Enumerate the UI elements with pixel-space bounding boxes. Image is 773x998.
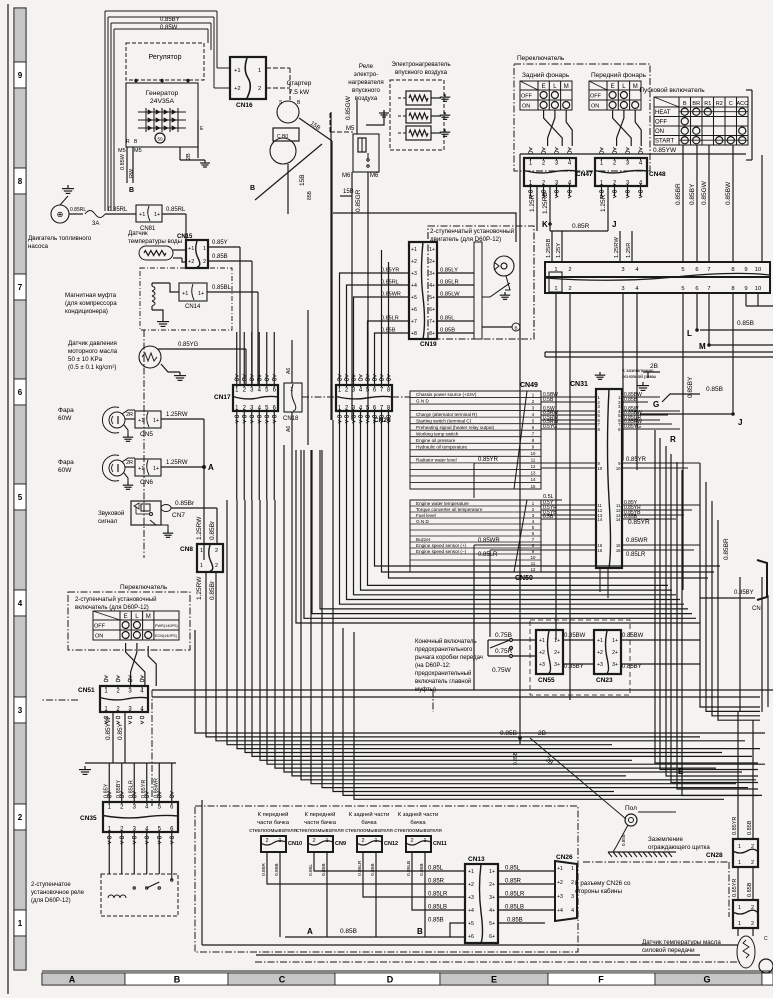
svg-text:+6: +6 bbox=[468, 934, 474, 940]
svg-text:+1: +1 bbox=[597, 638, 603, 644]
svg-text:0.5L: 0.5L bbox=[543, 494, 554, 500]
svg-text:Starting switch (terminal C): Starting switch (terminal C) bbox=[416, 418, 472, 423]
svg-text:C: C bbox=[729, 101, 733, 107]
svg-text:+3: +3 bbox=[539, 662, 545, 668]
svg-text:0.75B: 0.75B bbox=[495, 632, 512, 639]
svg-text:3+: 3+ bbox=[612, 662, 618, 668]
svg-text:CN16: CN16 bbox=[236, 102, 253, 109]
svg-text:2-ступенчатый установочный: 2-ступенчатый установочный bbox=[430, 228, 515, 235]
svg-text:CN: CN bbox=[752, 606, 761, 612]
svg-text:A: A bbox=[208, 463, 214, 472]
svg-text:сигнал: сигнал bbox=[98, 518, 118, 525]
svg-text:CN26: CN26 bbox=[556, 854, 573, 861]
svg-text:1+: 1+ bbox=[153, 466, 159, 472]
svg-text:0.85Br: 0.85Br bbox=[209, 580, 216, 600]
svg-text:Fuel level: Fuel level bbox=[416, 513, 436, 518]
svg-text:0.85BW: 0.85BW bbox=[725, 181, 732, 205]
svg-text:Working temp switch: Working temp switch bbox=[416, 431, 459, 436]
svg-text:0.85B: 0.85B bbox=[507, 918, 523, 924]
svg-text:Электронагреватель: Электронагреватель bbox=[391, 61, 450, 68]
svg-text:G N D: G N D bbox=[416, 399, 429, 404]
svg-text:1: 1 bbox=[738, 905, 741, 911]
svg-text:+1: +1 bbox=[138, 418, 144, 424]
svg-text:включатель главной: включатель главной bbox=[415, 678, 471, 685]
svg-text:(для D60P-12): (для D60P-12) bbox=[31, 898, 71, 904]
svg-text:0.85YW: 0.85YW bbox=[653, 147, 677, 154]
svg-text:0.85LR: 0.85LR bbox=[505, 892, 525, 898]
svg-text:Датчик: Датчик bbox=[128, 230, 148, 237]
svg-text:стеклоомывателя: стеклоомывателя bbox=[345, 828, 393, 834]
svg-text:(для компрессора: (для компрессора bbox=[65, 300, 117, 307]
svg-text:2+: 2+ bbox=[429, 259, 435, 265]
svg-text:CN6: CN6 bbox=[140, 479, 153, 486]
svg-text:CN51: CN51 bbox=[78, 687, 95, 694]
svg-text:M6: M6 bbox=[342, 173, 351, 179]
svg-text:0.85Y: 0.85Y bbox=[117, 722, 124, 740]
svg-text:CN10: CN10 bbox=[288, 841, 302, 847]
svg-text:1.25RW: 1.25RW bbox=[166, 460, 188, 466]
svg-text:M: M bbox=[699, 342, 706, 351]
svg-text:8: 8 bbox=[731, 286, 734, 292]
svg-text:E: E bbox=[542, 84, 546, 90]
svg-text:0.85RL: 0.85RL bbox=[70, 207, 86, 213]
svg-text:OFF: OFF bbox=[590, 94, 602, 100]
svg-text:1: 1 bbox=[203, 246, 206, 252]
svg-text:CN19: CN19 bbox=[420, 341, 437, 348]
svg-text:A: A bbox=[307, 927, 313, 936]
svg-text:CN13: CN13 bbox=[468, 856, 485, 863]
svg-text:60W: 60W bbox=[58, 467, 72, 474]
svg-text:0.85B: 0.85B bbox=[624, 514, 638, 520]
svg-text:части бачка: части бачка bbox=[257, 820, 290, 826]
svg-text:+4: +4 bbox=[557, 908, 563, 914]
svg-text:E: E bbox=[678, 767, 684, 776]
svg-text:0.85WR: 0.85WR bbox=[153, 778, 159, 798]
svg-text:рычага коробки передач: рычага коробки передач bbox=[415, 655, 483, 661]
svg-text:С: С bbox=[764, 936, 768, 942]
svg-text:0.85BW: 0.85BW bbox=[564, 633, 586, 639]
svg-text:ON: ON bbox=[522, 104, 530, 110]
svg-text:10: 10 bbox=[531, 555, 536, 560]
svg-text:5: 5 bbox=[18, 493, 23, 502]
svg-text:4: 4 bbox=[571, 908, 574, 914]
svg-text:0.85L: 0.85L bbox=[308, 864, 314, 876]
svg-text:1.25R: 1.25R bbox=[600, 194, 607, 212]
svg-text:+3: +3 bbox=[597, 662, 603, 668]
svg-text:моторного масла: моторного масла bbox=[68, 348, 118, 355]
svg-text:2-ступенчатый установочный: 2-ступенчатый установочный bbox=[75, 596, 157, 603]
svg-text:2: 2 bbox=[265, 838, 268, 844]
svg-text:+1: +1 bbox=[182, 291, 188, 297]
svg-text:B: B bbox=[514, 326, 517, 331]
svg-text:K: K bbox=[542, 220, 548, 229]
svg-text:C B0: C B0 bbox=[277, 134, 288, 140]
svg-text:1.25R: 1.25R bbox=[626, 243, 632, 258]
svg-text:+2: +2 bbox=[411, 259, 417, 265]
svg-text:+1: +1 bbox=[468, 869, 474, 875]
svg-text:2B: 2B bbox=[186, 153, 192, 160]
svg-text:0.85R: 0.85R bbox=[572, 223, 590, 230]
svg-text:+2: +2 bbox=[557, 880, 563, 886]
svg-text:M: M bbox=[633, 84, 638, 90]
svg-text:+3: +3 bbox=[557, 894, 563, 900]
svg-text:2B: 2B bbox=[538, 730, 546, 737]
svg-text:10: 10 bbox=[755, 267, 761, 273]
svg-text:0.85RL: 0.85RL bbox=[108, 207, 128, 213]
svg-text:0.85B: 0.85B bbox=[747, 882, 753, 897]
svg-text:1.25RW: 1.25RW bbox=[166, 412, 188, 418]
svg-text:CN23: CN23 bbox=[596, 677, 613, 684]
svg-text:0.85Y: 0.85Y bbox=[103, 783, 109, 798]
svg-text:ON: ON bbox=[655, 129, 664, 135]
svg-text:Переключатель: Переключатель bbox=[517, 55, 565, 62]
svg-text:B: B bbox=[129, 187, 134, 194]
svg-text:1+: 1+ bbox=[612, 638, 618, 644]
svg-text:+3: +3 bbox=[411, 271, 417, 277]
svg-text:Регулятор: Регулятор bbox=[149, 54, 182, 61]
svg-text:0.85Br: 0.85Br bbox=[175, 500, 195, 507]
svg-text:RW: RW bbox=[129, 168, 135, 178]
svg-text:Engine water temperature: Engine water temperature bbox=[416, 501, 469, 506]
svg-text:К разъему CN26 со: К разъему CN26 со bbox=[575, 880, 631, 887]
svg-text:1+: 1+ bbox=[429, 247, 435, 253]
svg-text:1: 1 bbox=[278, 838, 281, 844]
svg-text:Пусковой включатель: Пусковой включатель bbox=[639, 86, 705, 94]
svg-text:стеклоомывателя: стеклоомывателя bbox=[249, 828, 297, 834]
svg-text:+2: +2 bbox=[468, 882, 474, 888]
svg-text:воздуха: воздуха bbox=[355, 95, 378, 102]
svg-text:0.85BY: 0.85BY bbox=[116, 780, 122, 798]
svg-text:2: 2 bbox=[751, 921, 754, 927]
svg-text:Датчик давления: Датчик давления bbox=[68, 340, 117, 347]
svg-text:R: R bbox=[670, 435, 676, 444]
svg-text:предохранительного: предохранительного bbox=[415, 647, 473, 653]
svg-text:R: R bbox=[126, 139, 130, 145]
svg-text:3: 3 bbox=[571, 894, 574, 900]
svg-text:CN7: CN7 bbox=[172, 512, 185, 519]
svg-text:0.85B: 0.85B bbox=[621, 834, 626, 846]
svg-text:1: 1 bbox=[554, 286, 557, 292]
svg-text:кондиционера): кондиционера) bbox=[65, 308, 108, 315]
svg-text:0.85YG: 0.85YG bbox=[178, 342, 199, 348]
svg-text:насоса: насоса bbox=[28, 243, 49, 250]
svg-text:0.85R: 0.85R bbox=[505, 879, 522, 885]
svg-text:0.85RL: 0.85RL bbox=[166, 207, 186, 213]
svg-text:2: 2 bbox=[751, 844, 754, 850]
svg-text:1: 1 bbox=[571, 866, 574, 872]
svg-text:+2: +2 bbox=[188, 259, 194, 265]
svg-text:J: J bbox=[612, 220, 616, 229]
svg-text:0.85R: 0.85R bbox=[261, 863, 267, 876]
svg-text:7.5 kW: 7.5 kW bbox=[289, 89, 310, 96]
svg-text:M5: M5 bbox=[118, 148, 126, 154]
svg-text:M: M bbox=[564, 84, 569, 90]
svg-text:+1: +1 bbox=[188, 246, 194, 252]
svg-text:части бачка: части бачка bbox=[304, 820, 337, 826]
svg-text:включатель (для D60P-12): включатель (для D60P-12) bbox=[75, 605, 149, 611]
svg-text:0.85LY: 0.85LY bbox=[440, 268, 458, 274]
svg-text:CN12: CN12 bbox=[384, 841, 398, 847]
svg-text:M: M bbox=[146, 614, 151, 620]
svg-text:1+: 1+ bbox=[489, 869, 495, 875]
svg-text:3+: 3+ bbox=[489, 895, 495, 901]
svg-text:2: 2 bbox=[751, 905, 754, 911]
svg-text:1: 1 bbox=[200, 563, 203, 569]
svg-text:10: 10 bbox=[598, 466, 603, 471]
svg-text:0.85LB: 0.85LB bbox=[428, 905, 447, 911]
svg-text:M6: M6 bbox=[370, 173, 379, 179]
svg-text:+4: +4 bbox=[468, 908, 474, 914]
svg-text:0.75W: 0.75W bbox=[492, 667, 512, 674]
svg-text:К задней части: К задней части bbox=[398, 811, 439, 818]
svg-text:3+: 3+ bbox=[554, 662, 560, 668]
svg-text:CN47: CN47 bbox=[576, 171, 593, 178]
svg-text:J: J bbox=[738, 418, 742, 427]
svg-text:2: 2 bbox=[215, 563, 218, 569]
svg-text:Preheating signal (heater rela: Preheating signal (heater relay output) bbox=[416, 425, 495, 430]
svg-text:Конечный включатель: Конечный включатель bbox=[415, 638, 477, 645]
svg-text:2R: 2R bbox=[126, 412, 133, 418]
svg-text:двигатель (для D60P-12): двигатель (для D60P-12) bbox=[430, 236, 501, 243]
svg-text:+1: +1 bbox=[138, 466, 144, 472]
svg-text:7: 7 bbox=[18, 283, 23, 292]
svg-text:A6: A6 bbox=[286, 368, 292, 374]
svg-text:13: 13 bbox=[531, 471, 536, 476]
svg-text:L: L bbox=[687, 329, 692, 338]
svg-text:G N D: G N D bbox=[416, 519, 429, 524]
svg-text:стороны кабины: стороны кабины bbox=[575, 888, 622, 895]
svg-text:0.85B: 0.85B bbox=[321, 863, 327, 876]
svg-text:R2: R2 bbox=[716, 101, 723, 107]
svg-text:Buzzer: Buzzer bbox=[416, 537, 431, 542]
svg-text:0.85BY: 0.85BY bbox=[687, 376, 694, 398]
svg-text:7: 7 bbox=[707, 286, 710, 292]
svg-text:OFF: OFF bbox=[655, 120, 667, 126]
svg-text:1+: 1+ bbox=[554, 638, 560, 644]
svg-text:0.85B: 0.85B bbox=[500, 730, 517, 737]
svg-text:24V35A: 24V35A bbox=[150, 98, 175, 105]
svg-text:0.85YR: 0.85YR bbox=[732, 817, 738, 835]
svg-text:2: 2 bbox=[215, 548, 218, 554]
svg-text:2: 2 bbox=[312, 838, 315, 844]
svg-text:E: E bbox=[611, 84, 615, 90]
svg-text:(на D60P-12:: (на D60P-12: bbox=[415, 663, 451, 669]
svg-text:0.85LR: 0.85LR bbox=[440, 280, 459, 286]
svg-text:OFF: OFF bbox=[94, 624, 106, 630]
svg-text:Torque converter oil temperatu: Torque converter oil temperature bbox=[416, 507, 483, 512]
svg-text:5: 5 bbox=[681, 267, 684, 273]
svg-text:+3: +3 bbox=[468, 895, 474, 901]
svg-text:9: 9 bbox=[744, 267, 747, 273]
svg-text:0.85YR: 0.85YR bbox=[732, 879, 738, 897]
svg-text:0.85BW: 0.85BW bbox=[622, 633, 644, 639]
svg-text:0.85YR: 0.85YR bbox=[478, 457, 499, 463]
svg-text:2: 2 bbox=[410, 838, 413, 844]
svg-text:1: 1 bbox=[738, 860, 741, 866]
svg-text:B: B bbox=[250, 185, 255, 192]
svg-text:температуры воды: температуры воды bbox=[128, 238, 183, 245]
svg-text:CN5: CN5 bbox=[140, 431, 153, 438]
svg-text:+1: +1 bbox=[139, 212, 145, 218]
svg-text:К передней: К передней bbox=[305, 811, 336, 818]
svg-text:1: 1 bbox=[374, 838, 377, 844]
svg-text:+2: +2 bbox=[597, 650, 603, 656]
svg-text:Звуковой: Звуковой bbox=[98, 510, 125, 517]
svg-text:14: 14 bbox=[616, 517, 621, 522]
svg-text:впускного воздуха: впускного воздуха bbox=[395, 69, 448, 76]
svg-text:1.25RW: 1.25RW bbox=[196, 576, 203, 600]
svg-text:Двигатель топливного: Двигатель топливного bbox=[28, 235, 92, 242]
svg-text:0.85BR: 0.85BR bbox=[723, 538, 730, 560]
svg-text:⊕: ⊕ bbox=[57, 210, 64, 219]
svg-text:15: 15 bbox=[531, 484, 536, 489]
svg-text:3: 3 bbox=[621, 267, 624, 273]
svg-text:бачка: бачка bbox=[361, 820, 377, 826]
svg-text:8: 8 bbox=[18, 177, 23, 186]
svg-text:6: 6 bbox=[695, 286, 698, 292]
svg-text:+8: +8 bbox=[411, 331, 417, 337]
svg-text:0.85GR: 0.85GR bbox=[355, 189, 362, 212]
svg-text:A: A bbox=[69, 975, 76, 985]
svg-text:+1: +1 bbox=[539, 638, 545, 644]
svg-text:3A: 3A bbox=[92, 221, 99, 227]
svg-text:1: 1 bbox=[325, 838, 328, 844]
svg-text:Engine speed sensor (+): Engine speed sensor (+) bbox=[416, 543, 467, 548]
svg-text:0.85B: 0.85B bbox=[747, 820, 753, 835]
svg-text:+2: +2 bbox=[539, 650, 545, 656]
svg-text:14: 14 bbox=[598, 517, 603, 522]
svg-text:11: 11 bbox=[531, 561, 536, 566]
svg-text:+1: +1 bbox=[234, 68, 241, 74]
svg-text:0.85RL: 0.85RL bbox=[381, 280, 399, 286]
svg-text:5: 5 bbox=[681, 286, 684, 292]
svg-text:0.85GW: 0.85GW bbox=[701, 180, 708, 205]
svg-text:1: 1 bbox=[738, 844, 741, 850]
svg-text:2: 2 bbox=[751, 860, 754, 866]
svg-text:1: 1 bbox=[200, 548, 203, 554]
svg-text:0.85BL: 0.85BL bbox=[212, 285, 232, 291]
svg-text:0.85B: 0.85B bbox=[428, 918, 444, 924]
svg-text:0.85YG: 0.85YG bbox=[624, 424, 641, 430]
svg-text:6+: 6+ bbox=[489, 934, 495, 940]
svg-text:CN18: CN18 bbox=[283, 416, 299, 422]
svg-text:60W: 60W bbox=[58, 415, 72, 422]
svg-text:+4: +4 bbox=[411, 283, 417, 289]
svg-text:B: B bbox=[683, 101, 687, 107]
svg-text:1.25R: 1.25R bbox=[529, 194, 536, 212]
svg-text:0.85YR: 0.85YR bbox=[141, 780, 147, 798]
svg-text:установочное реле: установочное реле bbox=[31, 890, 85, 896]
svg-text:электро-: электро- bbox=[354, 71, 379, 78]
svg-text:2+: 2+ bbox=[489, 882, 495, 888]
svg-text:0.85LR: 0.85LR bbox=[428, 892, 448, 898]
svg-text:8+: 8+ bbox=[429, 331, 435, 337]
svg-text:стеклоомывателя: стеклоомывателя bbox=[394, 828, 442, 834]
svg-text:силовой передачи: силовой передачи bbox=[642, 947, 695, 954]
svg-text:Реле: Реле bbox=[359, 63, 374, 70]
svg-text:D: D bbox=[387, 975, 394, 985]
svg-text:0.85YR: 0.85YR bbox=[381, 268, 399, 274]
svg-text:3: 3 bbox=[18, 706, 23, 715]
svg-text:2R: 2R bbox=[126, 460, 133, 466]
svg-text:0.85BY: 0.85BY bbox=[689, 183, 696, 205]
svg-text:11: 11 bbox=[531, 458, 536, 463]
svg-text:0.85B: 0.85B bbox=[340, 928, 357, 935]
svg-text:0.85B: 0.85B bbox=[513, 751, 519, 765]
svg-text:1.25RB: 1.25RB bbox=[542, 192, 549, 214]
svg-text:0.85Br: 0.85Br bbox=[209, 520, 216, 540]
svg-text:0.85LR: 0.85LR bbox=[128, 780, 134, 798]
svg-text:+6: +6 bbox=[411, 307, 417, 313]
svg-text:0.85B: 0.85B bbox=[274, 863, 280, 876]
svg-text:Задний фонарь: Задний фонарь bbox=[522, 71, 570, 79]
svg-text:0.85R: 0.85R bbox=[428, 879, 445, 885]
svg-text:7+: 7+ bbox=[429, 319, 435, 325]
svg-text:0.85B: 0.85B bbox=[370, 863, 376, 876]
svg-text:BR: BR bbox=[692, 101, 700, 107]
svg-text:0.85LB: 0.85LB bbox=[406, 861, 412, 876]
svg-text:0.85W: 0.85W bbox=[120, 153, 126, 170]
svg-text:+7: +7 bbox=[411, 319, 417, 325]
svg-text:1+: 1+ bbox=[154, 212, 160, 218]
svg-text:Заземление: Заземление bbox=[648, 836, 683, 843]
svg-text:Датчик температуры масла: Датчик температуры масла bbox=[642, 939, 721, 946]
svg-text:12: 12 bbox=[531, 464, 536, 469]
svg-text:4: 4 bbox=[18, 599, 23, 608]
svg-text:0.85L: 0.85L bbox=[505, 866, 521, 872]
svg-text:1: 1 bbox=[258, 68, 261, 74]
svg-text:К заземлению: К заземлению bbox=[622, 368, 654, 374]
svg-text:1: 1 bbox=[290, 387, 293, 393]
svg-text:0.85B: 0.85B bbox=[212, 254, 228, 260]
svg-text:Engine speed sensor (−): Engine speed sensor (−) bbox=[416, 549, 467, 554]
svg-text:6: 6 bbox=[18, 388, 23, 397]
svg-text:0.5B: 0.5B bbox=[543, 397, 554, 403]
svg-text:Переключатель: Переключатель bbox=[120, 584, 168, 591]
svg-text:0.85B: 0.85B bbox=[440, 328, 455, 334]
svg-text:Hydraulic oil temperature: Hydraulic oil temperature bbox=[416, 444, 468, 449]
svg-text:10: 10 bbox=[531, 451, 536, 456]
svg-text:1: 1 bbox=[18, 919, 23, 928]
svg-text:CN31: CN31 bbox=[570, 381, 588, 388]
svg-text:Передний фонарь: Передний фонарь bbox=[591, 71, 647, 79]
svg-text:нагревателя: нагревателя bbox=[348, 79, 383, 86]
svg-text:CN9: CN9 bbox=[335, 841, 346, 847]
svg-text:+1: +1 bbox=[557, 866, 563, 872]
svg-text:0.85W: 0.85W bbox=[160, 25, 178, 31]
svg-text:+5: +5 bbox=[468, 921, 474, 927]
svg-text:0.85LW: 0.85LW bbox=[440, 292, 460, 298]
svg-text:Фара: Фара bbox=[58, 459, 74, 466]
svg-text:START: START bbox=[655, 139, 674, 145]
svg-text:0.85BY: 0.85BY bbox=[622, 664, 642, 670]
svg-text:10: 10 bbox=[755, 286, 761, 292]
svg-text:1.25RW: 1.25RW bbox=[196, 516, 203, 540]
svg-text:2: 2 bbox=[258, 86, 261, 92]
svg-text:0.85YW: 0.85YW bbox=[105, 716, 112, 740]
svg-text:0.85Y: 0.85Y bbox=[212, 240, 228, 246]
svg-text:0.85LR: 0.85LR bbox=[478, 552, 498, 558]
svg-text:5+: 5+ bbox=[489, 921, 495, 927]
svg-text:0.85WR: 0.85WR bbox=[381, 292, 401, 298]
svg-text:0.85BY: 0.85BY bbox=[564, 664, 584, 670]
svg-text:10: 10 bbox=[616, 466, 621, 471]
svg-text:CN17: CN17 bbox=[214, 394, 231, 401]
svg-text:1: 1 bbox=[423, 838, 426, 844]
svg-text:Chassis power source (+24V): Chassis power source (+24V) bbox=[416, 392, 477, 397]
svg-text:0.85BY: 0.85BY bbox=[734, 590, 754, 596]
svg-text:CN14: CN14 bbox=[185, 304, 201, 310]
